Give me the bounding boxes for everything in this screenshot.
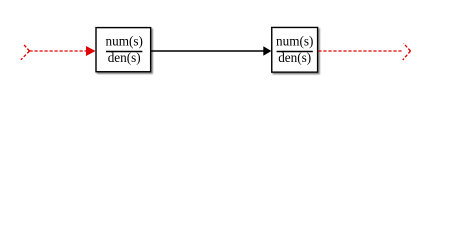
svg-text:num(s): num(s) [106,33,143,48]
wire: left red dashed input line [30,50,87,52]
node: left unconnected open-arrow symbol [21,44,30,60]
arrowhead into transfer fcn 2 (black) [263,46,271,55]
node: right unconnected open-arrow symbol [403,43,411,60]
svg-text:den(s): den(s) [108,50,141,65]
fraction bar of U1 [106,51,142,53]
fraction bar of U2 [277,51,313,53]
wire: black connector U1 -> U2 [151,50,264,52]
arrowhead into transfer fcn 1 (red) [86,46,96,56]
svg-text:den(s): den(s) [278,50,311,65]
transfer fcn block U1 [96,28,151,72]
svg-text:num(s): num(s) [276,33,313,48]
wire: right red dashed output line [318,50,403,52]
transfer fcn block U2 [272,27,318,72]
